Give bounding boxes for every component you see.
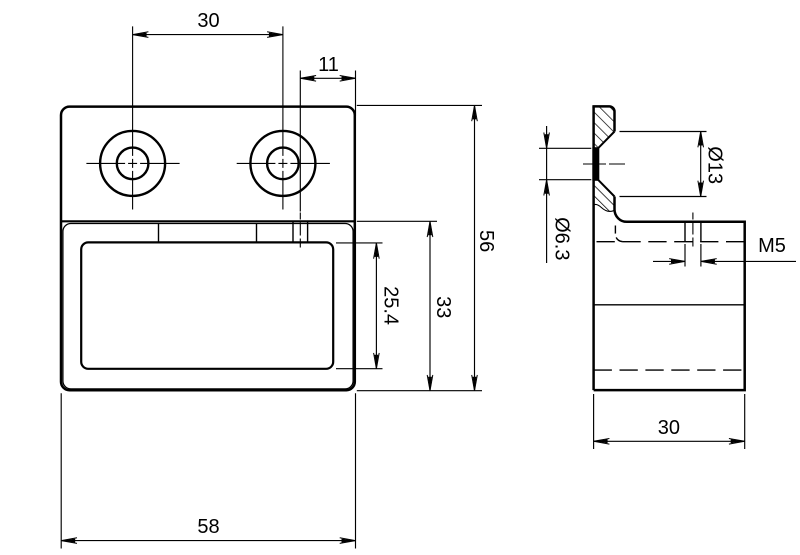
dim dia13: top arrow bbox=[699, 132, 703, 146]
dim dia6.3: top extension line bbox=[539, 147, 591, 149]
dimension 30 top: right arrow bbox=[269, 33, 283, 37]
dimension 56: top extension line bbox=[357, 104, 482, 106]
flange upper hatched section bbox=[594, 106, 615, 148]
dim 30 side: right arrow bbox=[731, 439, 745, 443]
dimension 33: top arrow bbox=[428, 221, 432, 235]
dimension 25.4: dim line bbox=[375, 243, 377, 369]
step edge line bbox=[61, 220, 355, 222]
svg-text:25.4: 25.4 bbox=[380, 286, 402, 325]
lower hidden line (dashed) bbox=[594, 369, 745, 371]
svg-text:11: 11 bbox=[318, 54, 339, 76]
dim dia6.3: lower arrow (pointing up) bbox=[545, 180, 549, 194]
dim dia6.3: upper arrow (pointing down) bbox=[545, 134, 549, 148]
hidden hole centerline bbox=[299, 213, 301, 251]
svg-text:30: 30 bbox=[197, 10, 219, 32]
svg-text:56: 56 bbox=[475, 230, 497, 252]
dimension 58: left arrow bbox=[61, 539, 75, 543]
dimension 25.4: top extension line bbox=[336, 242, 383, 244]
svg-text:Ø13: Ø13 bbox=[704, 146, 726, 184]
dim dia13: bottom extension line bbox=[620, 196, 707, 198]
M5 hole centerline bbox=[692, 213, 694, 251]
dimension 58: right arrow bbox=[342, 539, 356, 543]
dimension 33: top extension line bbox=[357, 220, 437, 222]
dimension 30 top: left arrow bbox=[133, 33, 147, 37]
dimension 58: right extension line bbox=[355, 393, 357, 548]
hole 2 horizontal centerline bbox=[237, 162, 330, 164]
dimension 11: left arrow bbox=[300, 76, 314, 80]
dimension 56: bottom arrow bbox=[473, 377, 477, 391]
svg-text:58: 58 bbox=[197, 516, 219, 538]
hidden hole right side bbox=[307, 222, 309, 242]
M5 tapped hole left side bbox=[684, 222, 686, 242]
dimension 11: right arrow bbox=[342, 76, 356, 80]
hidden recess line (dashed) bbox=[597, 241, 745, 243]
dimension 25.4: top arrow bbox=[374, 243, 378, 257]
flange lower hatched section bbox=[594, 180, 615, 212]
middle band rounded outline bbox=[63, 224, 353, 389]
hole bore (black band) bbox=[592, 147, 599, 181]
side view top edge bbox=[592, 106, 614, 131]
dimension 11: dim line bbox=[300, 77, 355, 79]
dim M5: left leader with arrow bbox=[653, 260, 685, 262]
hole 2 inner circle (dia 6.3) bbox=[267, 148, 299, 180]
dimension 58: dim line bbox=[61, 540, 355, 542]
side view left edge bbox=[592, 106, 595, 390]
dim dia13: bottom arrow bbox=[699, 183, 703, 197]
front view plate outline bbox=[61, 107, 355, 391]
svg-text:30: 30 bbox=[658, 417, 680, 439]
dim dia6.3: dim line bbox=[546, 126, 548, 263]
dimension 56: bottom extension line bbox=[357, 390, 482, 392]
side view horizontal centerline of hole bbox=[583, 163, 625, 165]
hole 2 outer circle (countersink dia 13) bbox=[250, 131, 315, 196]
dimension 58: left extension line bbox=[60, 393, 62, 548]
band seam left bbox=[158, 224, 160, 242]
dim M5: right leader with arrow bbox=[701, 260, 796, 262]
inner recess outline bbox=[81, 242, 333, 368]
svg-text:Ø6.3: Ø6.3 bbox=[551, 217, 573, 260]
flange right edge lower segment + fillet into leg bbox=[594, 197, 745, 391]
dimension 30 top: dim line bbox=[133, 34, 283, 36]
dim dia6.3: bottom extension line bbox=[539, 179, 591, 181]
dim dia13: top extension line bbox=[620, 131, 707, 133]
dimension 11: right extension line bbox=[355, 71, 357, 116]
dimension 25.4: bottom extension line bbox=[336, 368, 383, 370]
dim 30 side: dim line bbox=[594, 440, 745, 442]
dimension 11: left extension line bbox=[299, 71, 301, 212]
hidden recess corner (dashed) bbox=[615, 226, 624, 242]
dim M5: left extension line bbox=[684, 244, 686, 267]
dim dia13: dim line bbox=[700, 132, 702, 197]
section break wavy line bbox=[594, 204, 615, 211]
svg-text:33: 33 bbox=[432, 296, 454, 318]
dimension 56: top arrow bbox=[473, 105, 477, 119]
hole 1 vertical centerline / extension bbox=[132, 26, 134, 209]
dimension 25.4: bottom arrow bbox=[374, 355, 378, 369]
hole 1 horizontal centerline bbox=[86, 162, 179, 164]
hole 1 outer circle (countersink dia 13) bbox=[100, 131, 165, 196]
dimension 56: dim line bbox=[474, 105, 476, 390]
dimension 33: dim line bbox=[429, 221, 431, 390]
hidden hole left side bbox=[292, 222, 294, 242]
dim 30 side: right extension line bbox=[744, 394, 746, 449]
countersink lower diagonal bbox=[598, 180, 615, 197]
band seam right bbox=[256, 224, 258, 242]
dim 30 side: left arrow bbox=[594, 439, 608, 443]
mid solid line on leg bbox=[594, 304, 745, 306]
countersink upper diagonal bbox=[598, 132, 615, 149]
dim M5: right extension line bbox=[700, 244, 702, 267]
M5 tapped hole right side bbox=[700, 222, 702, 242]
hole 1 inner circle (dia 6.3) bbox=[117, 148, 149, 180]
svg-text:M5: M5 bbox=[758, 235, 786, 257]
hole 2 vertical centerline / extension bbox=[282, 26, 284, 209]
dimension 33: bottom arrow bbox=[428, 377, 432, 391]
dim 30 side: left extension line bbox=[593, 394, 595, 449]
